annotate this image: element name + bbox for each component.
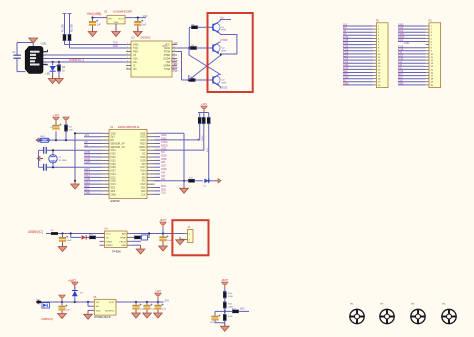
junction vout cap node xyxy=(157,301,159,303)
wire charger input xyxy=(46,233,105,235)
junction U3 in cap xyxy=(91,17,93,19)
svg-text:H3: H3 xyxy=(412,304,416,306)
wire U3 gnd lead xyxy=(115,24,117,31)
svg-text:V3: V3 xyxy=(175,42,179,45)
wire C9 lead xyxy=(61,302,63,306)
thermistor NTC xyxy=(142,235,148,240)
ground xyxy=(143,310,152,318)
svg-text:R15: R15 xyxy=(228,304,233,306)
highlight red box 1 xyxy=(208,13,253,92)
ground xyxy=(112,29,121,37)
label R1 xyxy=(63,24,65,32)
wire C2 to ground xyxy=(92,26,94,31)
wire R17 out xyxy=(239,310,249,312)
svg-text:15: 15 xyxy=(173,46,175,48)
svg-text:4: 4 xyxy=(127,53,128,55)
port VBAT xyxy=(36,300,42,304)
ground xyxy=(221,323,230,331)
net label +5V(USB) xyxy=(86,12,101,16)
svg-text:100K: 100K xyxy=(228,296,234,298)
wire U5 input wire xyxy=(36,301,94,303)
capacitor C3 xyxy=(134,20,143,26)
fuse F1 xyxy=(37,301,42,303)
ground xyxy=(132,310,141,318)
svg-text:10K: 10K xyxy=(69,130,73,132)
wire TEMP wire xyxy=(132,236,134,238)
svg-text:VCC: VCC xyxy=(106,234,111,236)
wires P2 pins xyxy=(343,26,376,85)
svg-text:IO15: IO15 xyxy=(141,184,147,186)
junction cap node xyxy=(61,232,63,234)
junction U3 out cap xyxy=(137,17,139,19)
wire D2 to port xyxy=(209,180,215,182)
resistor R4 xyxy=(190,46,197,49)
resistor R14 xyxy=(223,291,226,298)
svg-text:Y1: Y1 xyxy=(59,157,62,159)
svg-text:CMD: CMD xyxy=(111,194,117,196)
power flag 3V3 xyxy=(155,291,162,299)
capacitor C4 xyxy=(52,124,61,130)
power flag 3V3 xyxy=(201,104,208,112)
label F2 xyxy=(51,230,54,232)
fuse F2 xyxy=(51,232,58,235)
net label V3 xyxy=(175,42,179,45)
resistor R10 xyxy=(207,117,210,124)
IC U4 charger xyxy=(105,231,128,248)
wire R9 top xyxy=(203,113,205,118)
ground xyxy=(58,311,67,319)
net labels P2 xyxy=(343,24,349,86)
capacitor C9 xyxy=(58,305,67,311)
net label Da xyxy=(221,18,225,20)
svg-text:U2: U2 xyxy=(131,36,135,40)
svg-text:7: 7 xyxy=(127,64,128,66)
svg-text:IO34: IO34 xyxy=(111,150,117,152)
net label DSR xyxy=(171,67,178,70)
svg-text:GND: GND xyxy=(343,83,349,86)
svg-text:SD0: SD0 xyxy=(141,191,146,193)
wire xtal left rail xyxy=(38,150,40,167)
label 10uF xyxy=(140,309,146,311)
svg-text:+BATT: +BATT xyxy=(221,279,229,282)
wire gnd drop xyxy=(140,245,142,248)
wire EN drop xyxy=(87,302,89,306)
svg-text:IO12: IO12 xyxy=(111,177,117,179)
wire cap lead xyxy=(135,302,137,305)
wire USB VBUS to U2 xyxy=(43,61,126,63)
capacitor C1 xyxy=(13,55,20,59)
svg-text:+BATT: +BATT xyxy=(68,278,77,282)
label P2 xyxy=(376,20,380,23)
resistor R5 xyxy=(191,26,198,29)
svg-text:GND: GND xyxy=(404,42,410,45)
wire DTR from U2 xyxy=(177,51,182,53)
label SW1 xyxy=(40,136,46,138)
wire Q1 collector xyxy=(219,20,231,22)
svg-text:NPN: NPN xyxy=(222,50,227,52)
svg-text:3V3: 3V3 xyxy=(85,134,90,137)
junction gnd rail top xyxy=(74,132,76,134)
svg-text:P3: P3 xyxy=(429,20,433,23)
net labels U1 left xyxy=(85,134,91,195)
wire C7 to gnd xyxy=(62,242,64,246)
ground xyxy=(180,185,189,193)
junction gnd drop node xyxy=(183,180,185,182)
port IO0 xyxy=(215,179,221,183)
resistor R1 xyxy=(63,34,66,41)
svg-text:VIN: VIN xyxy=(108,18,112,20)
svg-text:IO14: IO14 xyxy=(111,174,117,176)
label R3 xyxy=(62,66,66,69)
capacitor C12 xyxy=(154,304,163,310)
wire xtal top wire xyxy=(47,149,102,151)
wire R15 to R16 xyxy=(224,309,226,315)
wire BAT wire xyxy=(132,233,184,235)
wire to D3 xyxy=(71,236,81,238)
svg-text:D2: D2 xyxy=(204,186,208,188)
svg-text:Q2: Q2 xyxy=(222,48,226,50)
wire cross diagonal 1 xyxy=(189,55,221,75)
net label RI xyxy=(174,63,178,66)
wire cap lead xyxy=(157,302,159,305)
wire J4 pin2 to gnd xyxy=(180,238,184,240)
svg-text:IO35: IO35 xyxy=(111,154,117,156)
net label DTR# xyxy=(221,38,228,42)
svg-text:ESP32: ESP32 xyxy=(111,199,121,203)
wire Q3 collector xyxy=(219,73,221,75)
net label R232 xyxy=(222,87,228,90)
wire C13 lead xyxy=(214,311,216,315)
svg-text:8: 8 xyxy=(127,67,128,69)
svg-text:IO17: IO17 xyxy=(141,167,147,169)
svg-text:BAT: BAT xyxy=(122,233,127,236)
wire U5 output xyxy=(116,301,164,303)
wire D5 to flag xyxy=(74,286,76,291)
resistor R2 xyxy=(68,34,71,41)
svg-text:IO19: IO19 xyxy=(141,157,147,159)
net label RXD xyxy=(113,46,118,48)
svg-text:3: 3 xyxy=(127,50,128,52)
wire IO0 wire xyxy=(155,180,189,182)
wire shield loop left lower xyxy=(16,59,18,72)
net label 3V3 xyxy=(165,299,170,302)
label 10K xyxy=(69,130,73,132)
svg-text:VIN: VIN xyxy=(96,302,100,304)
wire to ground xyxy=(183,181,185,188)
wire R5 to Q1 base xyxy=(198,26,213,28)
wire R10 top xyxy=(208,113,210,118)
net label DCD xyxy=(171,60,178,63)
wire cross diagonal 2 xyxy=(189,55,221,80)
junction R10 node xyxy=(208,180,210,182)
svg-text:H1: H1 xyxy=(351,304,355,306)
regulator U3 xyxy=(107,15,125,24)
junction bat cap node xyxy=(162,232,164,234)
svg-text:104: 104 xyxy=(210,322,214,324)
svg-text:VOUT: VOUT xyxy=(109,302,116,304)
USB connector J1 xyxy=(25,46,43,73)
connector J4 xyxy=(188,230,194,243)
wire U3 input xyxy=(93,17,108,19)
label 104 xyxy=(162,309,166,311)
label net TXD0 xyxy=(202,135,204,141)
junction R4 node xyxy=(188,47,190,49)
svg-text:IO27: IO27 xyxy=(111,171,117,173)
transistor Q2 xyxy=(212,42,226,53)
svg-text:NC: NC xyxy=(142,154,146,156)
svg-text:IO18: IO18 xyxy=(141,160,147,162)
label R7 xyxy=(69,127,73,129)
net tick xyxy=(63,13,67,15)
label 32.768K xyxy=(59,160,68,162)
svg-text:U4: U4 xyxy=(105,228,109,231)
svg-text:VCC: VCC xyxy=(143,15,148,18)
wire R1 to U2 GND row xyxy=(65,44,127,46)
wire C4 top lead xyxy=(55,121,57,125)
svg-text:LED: LED xyxy=(46,73,51,76)
svg-text:GND: GND xyxy=(111,181,116,183)
pin stubs U1 xyxy=(102,133,155,194)
junction xtal bottom node xyxy=(52,166,54,168)
pin stubs J1 xyxy=(43,50,48,65)
svg-text:SD1: SD1 xyxy=(141,188,146,190)
wire R8 top xyxy=(199,113,201,118)
svg-text:RXD: RXD xyxy=(113,46,118,48)
wire R12 to CE pin xyxy=(96,236,105,238)
label U2 xyxy=(131,36,135,40)
wire to R3 xyxy=(58,62,60,65)
svg-text:U1: U1 xyxy=(110,125,114,129)
svg-text:CLK: CLK xyxy=(141,194,146,196)
wire R11 to D2 xyxy=(195,180,203,182)
svg-text:2: 2 xyxy=(127,46,128,48)
svg-text:IO25: IO25 xyxy=(111,164,117,166)
wire cap to gnd xyxy=(135,309,137,312)
wire R2 bottom lead xyxy=(69,41,71,48)
label 10uF xyxy=(151,309,157,311)
label 1uF xyxy=(142,25,147,27)
svg-text:H2: H2 xyxy=(381,304,385,306)
svg-text:XO: XO xyxy=(133,68,137,71)
wire R16 to gnd xyxy=(224,321,226,326)
svg-text:SD3: SD3 xyxy=(111,191,116,193)
wire flag stem xyxy=(157,300,159,303)
svg-text:R16: R16 xyxy=(228,316,233,318)
IC U1 ESP32 module xyxy=(109,130,147,199)
wire D5 lead xyxy=(74,297,76,303)
svg-text:5: 5 xyxy=(127,57,128,59)
wire to R5 xyxy=(189,26,191,28)
label R2 xyxy=(72,24,74,32)
label U5 xyxy=(93,297,97,299)
label LED xyxy=(46,73,51,76)
resistor R12 xyxy=(89,236,96,239)
label C4 xyxy=(50,127,54,129)
svg-text:Q3: Q3 xyxy=(222,80,226,82)
wire cap lead xyxy=(146,302,148,305)
label 104 xyxy=(210,322,214,324)
svg-text:1uF: 1uF xyxy=(142,25,147,27)
svg-text:CLK: CLK xyxy=(161,192,166,195)
resistor R11 xyxy=(188,179,195,182)
svg-text:GND: GND xyxy=(111,133,116,135)
port XTAL xyxy=(37,156,43,160)
svg-text:EN: EN xyxy=(111,140,115,142)
wire R7 lead xyxy=(65,132,67,141)
label USB1 xyxy=(41,43,48,45)
wire shield loop top xyxy=(17,42,33,44)
junction LED branch xyxy=(52,61,54,63)
pin stubs U4 xyxy=(100,234,133,246)
svg-text:GND: GND xyxy=(96,310,101,312)
ground xyxy=(88,29,97,37)
wire PROG wire xyxy=(132,240,141,242)
svg-text:TXD: TXD xyxy=(113,43,118,45)
svg-text:R2 22R: R2 22R xyxy=(72,24,74,32)
wire shield loop left upper xyxy=(16,43,18,55)
wire diag stub xyxy=(188,48,190,55)
label 100K xyxy=(228,296,234,298)
wire GND rail xyxy=(74,133,76,183)
label 1uF xyxy=(97,25,102,27)
capacitor C11 xyxy=(143,304,152,310)
svg-text:C1: C1 xyxy=(13,51,17,54)
svg-text:GND: GND xyxy=(121,245,126,247)
wire R4 to Q2 base xyxy=(197,47,213,49)
svg-text:USB5V(C): USB5V(C) xyxy=(41,317,53,321)
wire Q3 emitter xyxy=(219,86,221,89)
wire R7 top lead xyxy=(65,121,67,125)
wire R1 bottom lead xyxy=(64,41,66,45)
svg-text:1uF: 1uF xyxy=(66,310,70,312)
svg-text:H4: H4 xyxy=(443,304,447,306)
wire to C5 xyxy=(39,149,44,151)
wire Q1 emitter loop xyxy=(219,33,237,54)
ground xyxy=(159,243,168,251)
label C1 xyxy=(13,51,17,54)
net label USB5V(C) xyxy=(41,317,53,321)
junction EN cap node xyxy=(55,139,57,141)
label R6 xyxy=(191,77,195,79)
wire USB D+ to U2 xyxy=(43,58,126,60)
ground xyxy=(58,244,67,252)
svg-text:D1: D1 xyxy=(46,64,50,67)
svg-text:IO25: IO25 xyxy=(85,161,91,164)
label U1 xyxy=(110,125,114,129)
label ESP32 xyxy=(111,199,121,203)
svg-text:3V3: 3V3 xyxy=(111,137,116,139)
label CH340C xyxy=(140,36,151,40)
capacitor C5 xyxy=(43,147,47,154)
highlight red box 2 xyxy=(172,220,208,255)
svg-text:GND: GND xyxy=(114,22,119,24)
label U4 xyxy=(105,228,109,231)
net label VCC xyxy=(143,15,148,18)
resistor R16 xyxy=(223,314,226,321)
svg-text:6: 6 xyxy=(127,60,128,62)
ground xyxy=(55,76,64,84)
svg-text:32.768K: 32.768K xyxy=(59,160,68,162)
junction ntc node xyxy=(148,232,150,234)
svg-text:USB5V(C): USB5V(C) xyxy=(28,230,43,234)
svg-text:IO32: IO32 xyxy=(111,157,117,159)
junction divider node xyxy=(224,310,226,312)
junction diode node xyxy=(74,301,76,303)
svg-text:TP4056: TP4056 xyxy=(112,251,121,254)
wire to C13 xyxy=(215,310,225,312)
label 100K xyxy=(228,307,234,309)
capacitor C7 xyxy=(59,236,68,242)
junction vout cap node xyxy=(146,301,148,303)
svg-text:IO21: IO21 xyxy=(141,150,147,152)
wire to R6 xyxy=(182,79,189,81)
resistor R17 xyxy=(232,310,239,313)
junction xtal top node xyxy=(52,149,54,151)
net labels P3 xyxy=(398,24,410,86)
power flag +BATT xyxy=(72,282,78,288)
ground xyxy=(176,237,185,245)
label R17 xyxy=(232,308,237,310)
wire EN wire xyxy=(88,305,94,307)
wire to C2 xyxy=(92,18,94,21)
capacitor C13 xyxy=(211,315,220,321)
wire to R17 xyxy=(225,310,232,312)
svg-text:VOUT: VOUT xyxy=(118,18,125,20)
wire to C6 xyxy=(39,166,44,168)
svg-text:NC/SYNC: NC/SYNC xyxy=(105,310,115,312)
diode D4 xyxy=(42,303,50,308)
svg-text:USB1: USB1 xyxy=(41,43,48,45)
label R5 xyxy=(192,25,196,27)
wire USB shield to ground xyxy=(32,43,34,47)
LED D1 xyxy=(50,65,58,72)
wire vertical DTR xyxy=(181,52,183,81)
junction vout cap node xyxy=(135,301,137,303)
svg-text:IO21: IO21 xyxy=(398,39,404,42)
svg-text:Q1: Q1 xyxy=(222,27,226,29)
svg-text:EN: EN xyxy=(96,306,99,308)
junction Q2 emitter node xyxy=(220,53,222,55)
wire to R14 xyxy=(224,289,226,292)
power flag 3V3 xyxy=(53,115,60,123)
ground xyxy=(48,76,57,84)
svg-text:VN: VN xyxy=(85,144,89,147)
diode D3 xyxy=(82,235,87,239)
wires P3 pins xyxy=(398,26,429,85)
svg-text:J4: J4 xyxy=(188,227,191,229)
svg-text:RT9080-33GJ5: RT9080-33GJ5 xyxy=(94,316,111,319)
wire RTS to R4 xyxy=(177,47,189,49)
svg-text:1: 1 xyxy=(127,43,128,45)
wire cap to gnd xyxy=(146,309,148,312)
svg-text:14: 14 xyxy=(173,50,175,52)
label XC6206P332MR xyxy=(113,11,132,14)
label D2 xyxy=(204,186,208,188)
wire U3 output xyxy=(125,17,146,19)
label RT9080-33GJ5 xyxy=(94,316,111,319)
label R11 xyxy=(189,178,194,180)
svg-text:TEMP: TEMP xyxy=(120,237,127,239)
label net EN xyxy=(198,138,200,141)
net label +BATT xyxy=(68,278,77,282)
net label USB5V(C) xyxy=(28,230,43,234)
label 1K xyxy=(62,70,65,73)
svg-text:IO13: IO13 xyxy=(111,184,117,186)
wire C3 to ground xyxy=(137,26,139,31)
svg-text:ADC: ADC xyxy=(240,308,245,311)
wire gnd drop xyxy=(87,310,89,313)
capacitor C8 xyxy=(159,235,168,241)
